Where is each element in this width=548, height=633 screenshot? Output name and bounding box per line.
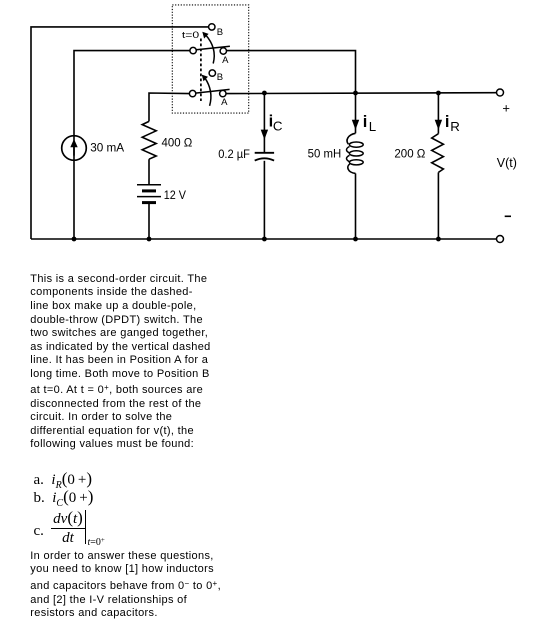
switch1 pole contact <box>190 47 196 53</box>
switch2 contact A <box>220 90 226 96</box>
svg-text:i: i <box>445 113 450 131</box>
svg-text:30 mA: 30 mA <box>90 141 124 155</box>
junction top capacitor node <box>262 91 267 96</box>
junction bottom inductor node <box>353 237 358 242</box>
svg-text:A: A <box>222 55 229 66</box>
switch1 blade <box>196 46 230 50</box>
terminal + (top right) <box>497 89 504 96</box>
wire bottom rail <box>31 238 497 240</box>
switch2 arc arrow <box>205 78 211 106</box>
svg-text:0.2 µF: 0.2 µF <box>218 147 250 161</box>
paragraph 1 <box>30 273 210 452</box>
switch1 contact A <box>220 48 226 54</box>
arrow iC <box>261 130 268 140</box>
switch1 arc arrow <box>206 35 215 64</box>
resistor R 400ohm <box>142 121 156 159</box>
switch2 pole contact <box>189 90 195 96</box>
switch2 blade <box>196 89 230 93</box>
junction top resistor node <box>436 91 441 96</box>
switch S1 gang dashed line <box>200 39 202 102</box>
paragraph 2 <box>30 550 221 621</box>
wire wire2: source top to switch1 pole <box>74 51 190 239</box>
label minus <box>505 216 511 218</box>
wire outer-left and top (source to switch1 B) <box>31 27 209 239</box>
junction bottom source node <box>72 237 77 242</box>
wire switch2 A to + terminal <box>226 92 497 95</box>
svg-text:L: L <box>369 119 376 134</box>
svg-text:A: A <box>221 97 228 108</box>
current source I1 30 mA <box>62 136 87 161</box>
math item a <box>34 469 93 491</box>
capacitor C branch wire upper <box>263 93 265 152</box>
junction bottom capacitor node <box>262 237 267 242</box>
svg-text:i: i <box>363 113 368 131</box>
svg-text:R: R <box>450 119 460 134</box>
svg-text:B: B <box>217 27 223 38</box>
wire battery to bottom rail <box>148 204 150 239</box>
svg-text:t=0: t=0 <box>182 30 199 41</box>
dashed DPDT box <box>172 5 248 113</box>
switch2 contact B <box>209 70 215 76</box>
wire switch1 A to inductor node <box>227 51 356 93</box>
math subscript t=0+ <box>88 536 105 548</box>
junction bottom battery node <box>147 237 152 242</box>
arrow iL <box>352 120 359 130</box>
junction top inductor node <box>353 91 358 96</box>
svg-text:V(t): V(t) <box>497 156 517 170</box>
svg-text:+: + <box>502 101 510 116</box>
capacitor C plates 0.2uF <box>255 152 274 154</box>
arrow iR <box>435 120 442 130</box>
resistor R 200ohm branch wire upper <box>437 93 439 134</box>
svg-text:50 mH: 50 mH <box>308 147 342 161</box>
wire 400ohm branch to switch2 pole <box>149 93 189 121</box>
switch1 contact B <box>209 24 215 30</box>
inductor L coil 50 mH <box>347 133 355 144</box>
battery V1 12V <box>137 184 161 186</box>
svg-text:12 V: 12 V <box>164 188 186 202</box>
terminal - (bottom right) <box>497 236 504 243</box>
resistor 200ohm zigzag <box>432 134 444 173</box>
svg-text:C: C <box>273 119 283 134</box>
junction bottom resistor node <box>436 237 441 242</box>
math eval bar <box>85 510 86 544</box>
math item c fraction dv(t)/dt <box>34 523 44 540</box>
svg-text:B: B <box>217 72 223 83</box>
inductor branch wire lower <box>355 173 357 239</box>
svg-text:400 Ω: 400 Ω <box>162 136 193 150</box>
inductor L branch wire upper <box>355 93 357 133</box>
capacitor branch wire lower <box>263 161 265 239</box>
resistor branch wire lower <box>437 172 439 239</box>
svg-text:200 Ω: 200 Ω <box>394 147 425 161</box>
wire resistor to battery <box>148 159 150 184</box>
math item b <box>34 487 94 509</box>
